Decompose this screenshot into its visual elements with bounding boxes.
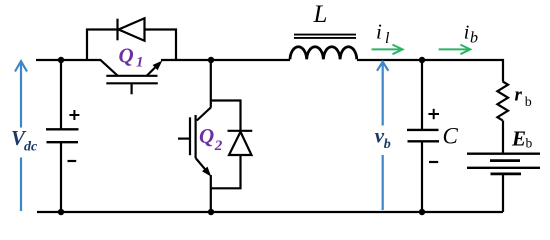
svg-text:2: 2	[214, 138, 223, 154]
label Q2	[199, 124, 223, 154]
svg-text:i: i	[376, 20, 382, 44]
wire: top rail middle segment (emitter to inductor)	[161, 59, 290, 61]
wire: top rail right segment (inductor to right corner)	[357, 59, 503, 61]
polarity + (dc-link)	[69, 110, 79, 120]
svg-text:L: L	[313, 1, 328, 28]
svg-text:b: b	[384, 137, 391, 152]
transistor Q2 (IGBT, vertical, gate left)	[178, 108, 211, 174]
arrow i_l (green, right)	[372, 45, 403, 55]
node: bottom rail / Q2 junction	[208, 209, 214, 215]
capacitor Cdc (dc source)	[46, 129, 79, 142]
node: phase node (top rail / Q2)	[208, 57, 214, 63]
polarity − (dc-link)	[68, 160, 77, 162]
svg-text:i: i	[464, 21, 470, 43]
capacitor C	[407, 130, 439, 141]
svg-text:dc: dc	[24, 140, 38, 155]
label r_b	[515, 85, 532, 110]
diode D1 (antiparallel with Q1, cathode left)	[118, 18, 145, 40]
node: top rail / C junction	[419, 57, 425, 63]
svg-text:b: b	[526, 136, 533, 151]
transistor Q1 (IGBT, horizontal, gate below)	[100, 60, 159, 95]
wire: bottom rail	[37, 211, 503, 213]
svg-text:Q: Q	[119, 44, 134, 68]
wire: capacitor C top lead	[421, 60, 423, 130]
label Vdc	[11, 126, 38, 155]
battery E_b	[467, 154, 540, 174]
svg-text:l: l	[385, 30, 390, 47]
label i_l	[376, 20, 390, 48]
inductor L core bars	[294, 35, 356, 38]
wire: D1 loop left riser	[87, 30, 117, 61]
wire: Q2 emitter to bottom rail	[210, 175, 212, 212]
svg-text:Q: Q	[199, 124, 214, 148]
wire: resistor to battery	[502, 121, 504, 154]
inductor L (4 humps)	[290, 47, 357, 60]
resistor r_b (zigzag)	[497, 82, 508, 121]
wire: battery to bottom rail	[502, 174, 504, 212]
transistor Q2 emitter arrowhead	[202, 167, 211, 177]
svg-text:1: 1	[136, 55, 144, 71]
diode D2 (antiparallel with Q2, cathode up)	[228, 131, 253, 155]
wire: D2 loop top branch	[211, 101, 241, 131]
arrow Vdc (blue, up)	[15, 61, 27, 211]
label v_b	[375, 124, 391, 153]
svg-text:C: C	[443, 124, 459, 149]
wire: D1 loop right riser	[145, 30, 177, 61]
wire: phase node down to Q2	[210, 60, 212, 108]
node: top rail / dc-link junction	[58, 57, 64, 63]
wire: capacitor C bottom lead	[421, 141, 423, 212]
label E_b	[511, 126, 533, 150]
svg-text:b: b	[525, 95, 532, 110]
svg-text:E: E	[511, 126, 526, 150]
polarity + (C)	[428, 109, 439, 119]
wire: dc-link capacitor bottom lead	[60, 142, 62, 212]
wire: top rail left segment (collector side)	[36, 59, 101, 61]
arrow i_b (green, right)	[439, 45, 471, 55]
wire: right branch top (to resistor)	[502, 59, 504, 82]
node: bottom rail / C junction	[419, 209, 425, 215]
wire: dc-link capacitor top lead	[60, 60, 62, 129]
arrow v_b (blue, up)	[377, 62, 388, 210]
wire: D2 loop bottom branch	[211, 155, 241, 188]
node: bottom rail / dc-link junction	[58, 209, 64, 215]
label Q1	[119, 44, 144, 71]
transistor Q1 emitter arrowhead	[153, 61, 163, 71]
svg-text:r: r	[515, 85, 523, 106]
polarity − (C)	[429, 161, 438, 163]
svg-text:b: b	[470, 30, 478, 47]
label i_b	[464, 21, 478, 46]
